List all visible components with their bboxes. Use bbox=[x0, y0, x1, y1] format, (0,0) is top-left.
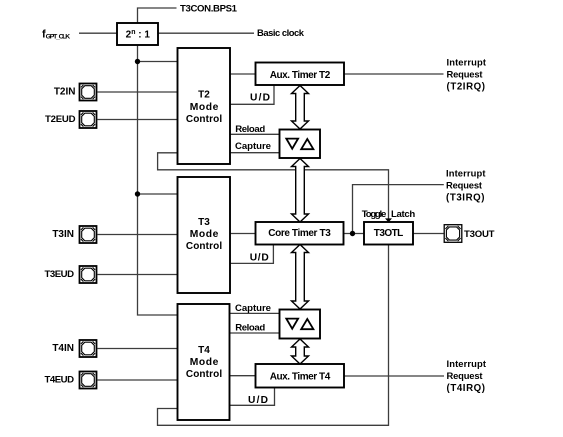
svg-text:Reload: Reload bbox=[235, 323, 265, 334]
svg-text:Toggle: Toggle bbox=[362, 209, 387, 220]
svg-text:(T2IRQ): (T2IRQ) bbox=[447, 82, 486, 93]
svg-text:Latch: Latch bbox=[391, 209, 415, 220]
svg-text:T2: T2 bbox=[198, 90, 210, 101]
svg-text:Request: Request bbox=[446, 179, 482, 190]
svg-text:Request: Request bbox=[447, 69, 483, 80]
svg-text:Reload: Reload bbox=[235, 124, 265, 135]
svg-text:Aux. Timer T2: Aux. Timer T2 bbox=[270, 70, 331, 81]
svg-text:T3EUD: T3EUD bbox=[45, 269, 75, 280]
svg-text:Core Timer T3: Core Timer T3 bbox=[268, 228, 331, 239]
svg-text:Aux. Timer T4: Aux. Timer T4 bbox=[270, 372, 331, 383]
svg-text:Interrupt: Interrupt bbox=[446, 167, 486, 178]
svg-text:Capture: Capture bbox=[235, 141, 271, 152]
svg-text:Mode: Mode bbox=[190, 229, 219, 240]
svg-text:T3IN: T3IN bbox=[52, 229, 74, 240]
svg-text:T3CON.BPS1: T3CON.BPS1 bbox=[180, 3, 238, 14]
svg-text:T4: T4 bbox=[198, 345, 210, 356]
svg-text:Mode: Mode bbox=[190, 357, 219, 368]
svg-text:(T4IRQ): (T4IRQ) bbox=[447, 383, 486, 394]
svg-text:Basic clock: Basic clock bbox=[257, 27, 305, 38]
svg-text:(T3IRQ): (T3IRQ) bbox=[446, 192, 485, 203]
svg-text:T3: T3 bbox=[198, 217, 210, 228]
svg-text:Interrupt: Interrupt bbox=[447, 57, 487, 68]
svg-text:T2IN: T2IN bbox=[54, 86, 76, 97]
svg-text:T4IN: T4IN bbox=[52, 343, 74, 354]
svg-text:Request: Request bbox=[447, 370, 483, 381]
svg-text:Control: Control bbox=[186, 369, 223, 380]
svg-text:T3OUT: T3OUT bbox=[464, 229, 495, 240]
svg-text:T3OTL: T3OTL bbox=[374, 228, 404, 239]
svg-text:T2EUD: T2EUD bbox=[45, 114, 76, 125]
svg-text:Capture: Capture bbox=[235, 303, 271, 314]
svg-text:T4EUD: T4EUD bbox=[45, 374, 75, 385]
svg-text:Mode: Mode bbox=[190, 102, 219, 113]
svg-text:2n : 1: 2n : 1 bbox=[126, 29, 151, 41]
svg-text:Interrupt: Interrupt bbox=[447, 358, 487, 369]
svg-text:U/D: U/D bbox=[250, 252, 269, 263]
svg-text:Control: Control bbox=[186, 241, 223, 252]
svg-text:Control: Control bbox=[186, 114, 223, 125]
svg-text:U/D: U/D bbox=[248, 395, 268, 406]
svg-text:U/D: U/D bbox=[250, 92, 270, 103]
